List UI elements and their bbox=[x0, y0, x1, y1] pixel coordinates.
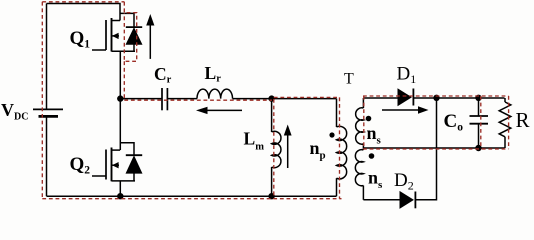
wire mid rail bbox=[120, 98, 162, 100]
inductor Lm branch bbox=[272, 99, 281, 197]
wire Q1 source to node A bbox=[119, 51, 121, 98]
center tap wire bbox=[362, 144, 364, 150]
polarity dot ns bottom bbox=[369, 153, 375, 159]
diode D2 bbox=[400, 192, 415, 209]
diode of Q1 (body diode) bbox=[120, 13, 142, 51]
wire top rail bbox=[47, 4, 121, 21]
dashed box secondary: left edge bbox=[363, 96, 365, 147]
diode D1 bbox=[398, 89, 413, 106]
node B dot (Lm top) bbox=[268, 95, 274, 101]
svg-text:T: T bbox=[344, 71, 354, 88]
winding ns top of transformer T bbox=[356, 98, 364, 144]
node dot Lm bottom bbox=[268, 193, 274, 199]
svg-text:Q1: Q1 bbox=[70, 28, 91, 51]
dashed box secondary: top edge bbox=[363, 95, 509, 97]
polarity dot ns top bbox=[366, 116, 372, 122]
dashed box input bridge: bottom edge bbox=[42, 198, 341, 200]
dashed box around Q1 body diode bbox=[124, 2, 136, 100]
arrow current right under D1 bbox=[382, 106, 429, 113]
dashed box secondary: bottom edge bbox=[363, 148, 509, 150]
wire left rail upper bbox=[46, 4, 48, 110]
svg-text:Q2: Q2 bbox=[70, 154, 91, 177]
dashed box Lm-np: left edge bbox=[273, 99, 275, 199]
svg-text:ns: ns bbox=[368, 168, 383, 192]
red dashed section boundaries bbox=[42, 2, 508, 199]
dashed box secondary: right edge bbox=[508, 96, 510, 149]
inductor Lr bbox=[197, 89, 233, 99]
svg-text:ns: ns bbox=[367, 123, 382, 147]
wire node A to Q2 drain bbox=[119, 99, 121, 151]
node dot Co bottom bbox=[475, 145, 481, 151]
svg-text:Lm: Lm bbox=[244, 129, 265, 153]
arrow up beside Q1 bbox=[146, 14, 154, 59]
polarity dot np bbox=[329, 132, 334, 137]
svg-text:VDC: VDC bbox=[1, 100, 28, 123]
svg-text:Lr: Lr bbox=[205, 63, 222, 85]
node dot Q2 source / bottom rail bbox=[117, 193, 123, 199]
battery VDC bbox=[33, 109, 63, 116]
svg-text:Cr: Cr bbox=[154, 64, 172, 86]
wire ns bottom to D2 bbox=[363, 199, 400, 201]
svg-text:D1: D1 bbox=[397, 64, 417, 87]
wire bottom rail bbox=[47, 195, 337, 197]
capacitor Cr bbox=[162, 88, 167, 110]
winding ns bottom of transformer T bbox=[355, 150, 363, 200]
dashed box input bridge: left edge bbox=[41, 2, 43, 199]
wire D2 up to output top rail bbox=[415, 98, 436, 200]
diode of Q2 (body diode) bbox=[120, 143, 142, 181]
dashed divider between rectifier and output filter bbox=[480, 96, 482, 149]
resistor R bbox=[499, 98, 511, 148]
wire Cr to Lr bbox=[167, 98, 197, 100]
node dot Co top bbox=[475, 95, 481, 101]
wire center tap to output bottom rail bbox=[363, 147, 504, 149]
node A dot bbox=[117, 95, 123, 101]
wire D1 to output top rail bbox=[413, 97, 504, 99]
svg-text:Co: Co bbox=[444, 111, 464, 134]
wire ns top to D1 bbox=[363, 97, 398, 99]
node dot D1/D2 cathode junction bbox=[433, 95, 439, 101]
svg-text:D2: D2 bbox=[394, 170, 414, 193]
arrow up beside Lm bbox=[284, 125, 292, 169]
winding np of transformer T bbox=[337, 99, 347, 197]
wire Lr to node B bbox=[233, 98, 337, 100]
capacitor Co bbox=[470, 98, 489, 148]
dashed line along mid rail bbox=[124, 99, 272, 101]
svg-text:R: R bbox=[516, 108, 530, 132]
wire left rail lower bbox=[46, 116, 48, 196]
dashed box Lm-np: right edge bbox=[339, 97, 341, 198]
dashed box input bridge: top edge bbox=[42, 1, 124, 3]
svg-text:np: np bbox=[310, 138, 326, 162]
dashed box Lm-np: top edge bbox=[274, 96, 340, 98]
wire Q2 source to bottom rail bbox=[119, 181, 121, 196]
transistor Q2 bbox=[92, 148, 135, 182]
transistor Q1 bbox=[92, 18, 135, 52]
arrow current left under Lr bbox=[196, 107, 242, 114]
